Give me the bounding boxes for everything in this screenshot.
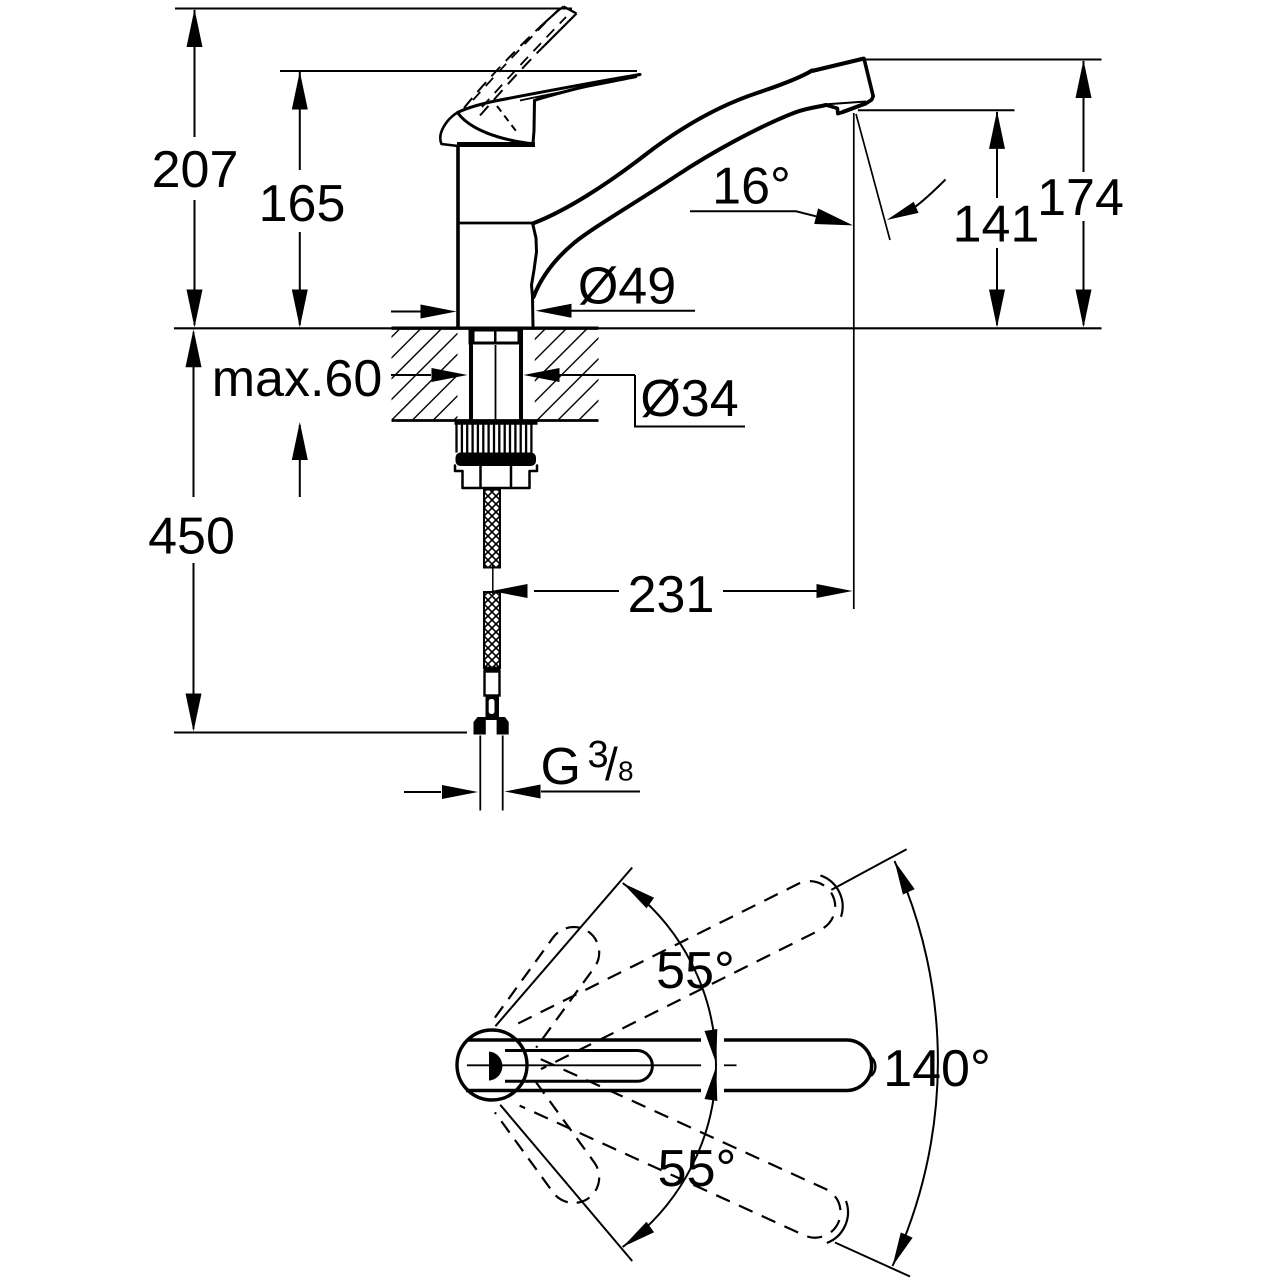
bottom view handle end cap — [848, 1040, 872, 1091]
faucet body top band — [457, 142, 535, 147]
bottom view body circle — [457, 1030, 527, 1100]
svg-text:16°: 16° — [712, 158, 791, 216]
svg-text:Ø49: Ø49 — [578, 258, 676, 316]
handle beak — [440, 113, 458, 147]
dim 207 arrowheads — [187, 9, 203, 47]
mounting collar profile — [455, 466, 537, 489]
shank right edge — [519, 330, 523, 422]
svg-text:G: G — [541, 738, 581, 796]
dim 141 vertical line — [996, 112, 998, 198]
handle hidden cartridge dash — [497, 106, 516, 131]
mounting nut washer band — [456, 453, 537, 467]
dashed handle position lower-right 70deg limit — [520, 1059, 856, 1249]
dashed handle position upper-right 70deg limit — [518, 869, 850, 1069]
faucet body joint line — [458, 222, 532, 225]
supply pipe right line — [502, 736, 504, 811]
raised handle inner dashed line 2 — [482, 17, 566, 107]
svg-text:55°: 55° — [656, 942, 735, 1000]
shank center seam — [495, 345, 497, 420]
dim O34 left arrow — [391, 374, 431, 376]
arc 55deg upper — [623, 883, 716, 1065]
raised handle inner dashed line 1 — [473, 10, 558, 100]
supply pipe left line — [479, 736, 481, 811]
deck reference line — [174, 327, 1102, 329]
handle dome — [458, 113, 535, 145]
svg-text:55°: 55° — [658, 1140, 737, 1198]
dim O34 right arrow — [559, 374, 635, 376]
faucet body right edge — [532, 223, 537, 327]
dim 231 line — [534, 590, 619, 592]
water stream line 16deg — [856, 114, 890, 240]
hose ferrule — [485, 672, 500, 696]
dim G38 left arrow — [404, 791, 441, 793]
dashed handle position upper-left 55deg — [495, 917, 609, 1048]
radial line upper-left — [495, 868, 632, 1027]
spout upper curve — [534, 71, 812, 224]
svg-text:max.60: max.60 — [212, 350, 383, 408]
bottom view cartridge mark — [489, 1052, 502, 1081]
spout tip vertical extension line — [853, 113, 855, 609]
dim G38 right arrow — [541, 791, 640, 793]
dim 174 top line — [865, 59, 1102, 61]
counter top edge (thick over hatch) — [392, 327, 599, 330]
bottom view handle end second arc — [871, 1057, 875, 1076]
dim 165 vertical line — [299, 72, 301, 170]
hose end nut — [474, 717, 509, 735]
dim 450 vertical line — [193, 332, 195, 497]
16deg curved arrow — [913, 180, 946, 209]
hose connector — [486, 696, 500, 718]
svg-text:165: 165 — [259, 175, 346, 233]
counter hatch right block — [535, 329, 599, 420]
aerator bottom edge — [842, 103, 867, 112]
dim 174 vertical line — [1083, 61, 1085, 172]
dim 141 arrowheads — [989, 111, 1005, 149]
svg-text:141: 141 — [953, 196, 1040, 254]
hose braid lower — [484, 592, 500, 668]
collar inner left line — [479, 466, 482, 488]
dim 231 arrowheads — [492, 584, 528, 598]
counter bottom edge — [392, 419, 599, 422]
dim 141 top line — [858, 109, 1015, 111]
radial line lower-left — [500, 1105, 632, 1261]
bottom view handle bottom edge — [466, 1089, 701, 1093]
spout head top face thick — [812, 59, 864, 72]
dim max60 arrow below (up to counter bottom) — [299, 425, 301, 497]
arc 140deg — [893, 861, 938, 1266]
dim 450 bottom line — [174, 732, 467, 734]
aerator seam — [827, 102, 866, 105]
raised handle left edge lower (dashed) — [464, 27, 540, 108]
radial line upper-right — [831, 849, 906, 890]
arc 55deg lower — [623, 1065, 716, 1247]
spout lower curve — [534, 105, 827, 297]
hose crimp band — [484, 667, 501, 672]
collar inner right line — [510, 466, 513, 488]
raised handle right edge lower (dashed) — [480, 48, 542, 116]
dim O49 left arrow — [391, 311, 421, 313]
handle blade bottom edge — [535, 75, 641, 101]
bottom view handle top edge — [468, 1038, 702, 1042]
faucet body left edge — [456, 147, 460, 327]
svg-text:207: 207 — [152, 141, 239, 199]
svg-text:140°: 140° — [883, 1040, 991, 1098]
svg-text:/: / — [605, 738, 618, 790]
counter hatch left block — [392, 329, 458, 420]
svg-text:174: 174 — [1037, 169, 1124, 227]
dim 174 arrowheads — [1076, 60, 1092, 98]
dim 207 top line — [175, 8, 572, 10]
svg-text:231: 231 — [628, 566, 715, 624]
raised handle tip — [564, 7, 577, 14]
radial line lower-right — [835, 1243, 910, 1277]
svg-text:8: 8 — [618, 756, 634, 787]
raised handle left edge upper (solid) — [540, 7, 564, 28]
dim 165 top line — [280, 70, 637, 72]
dim 16deg leader — [690, 211, 816, 216]
dim 207 vertical line — [194, 10, 196, 137]
dim 165 arrowheads — [292, 72, 308, 110]
dim 450 arrowheads — [186, 329, 202, 367]
bottom view handle inner outline — [505, 1051, 652, 1082]
mounting nut top edge — [455, 420, 538, 425]
mounting nut splines — [455, 423, 457, 453]
handle neck step — [533, 101, 535, 144]
shank left edge — [469, 330, 473, 422]
dim O34 leader — [635, 375, 745, 427]
handle blade top edge — [458, 75, 641, 113]
hose braid upper — [484, 490, 500, 568]
dim O49 right arrow — [571, 310, 695, 312]
dashed handle position lower-left 55deg — [495, 1082, 609, 1213]
hose break centerline — [492, 565, 494, 594]
svg-text:450: 450 — [148, 508, 235, 566]
handle blade inner line — [520, 77, 637, 101]
spout head outline — [814, 59, 873, 114]
svg-text:Ø34: Ø34 — [640, 370, 738, 428]
shank top section dark — [469, 330, 524, 345]
raised handle right edge upper (solid) — [542, 14, 577, 49]
bottom view centerline — [467, 1064, 701, 1066]
